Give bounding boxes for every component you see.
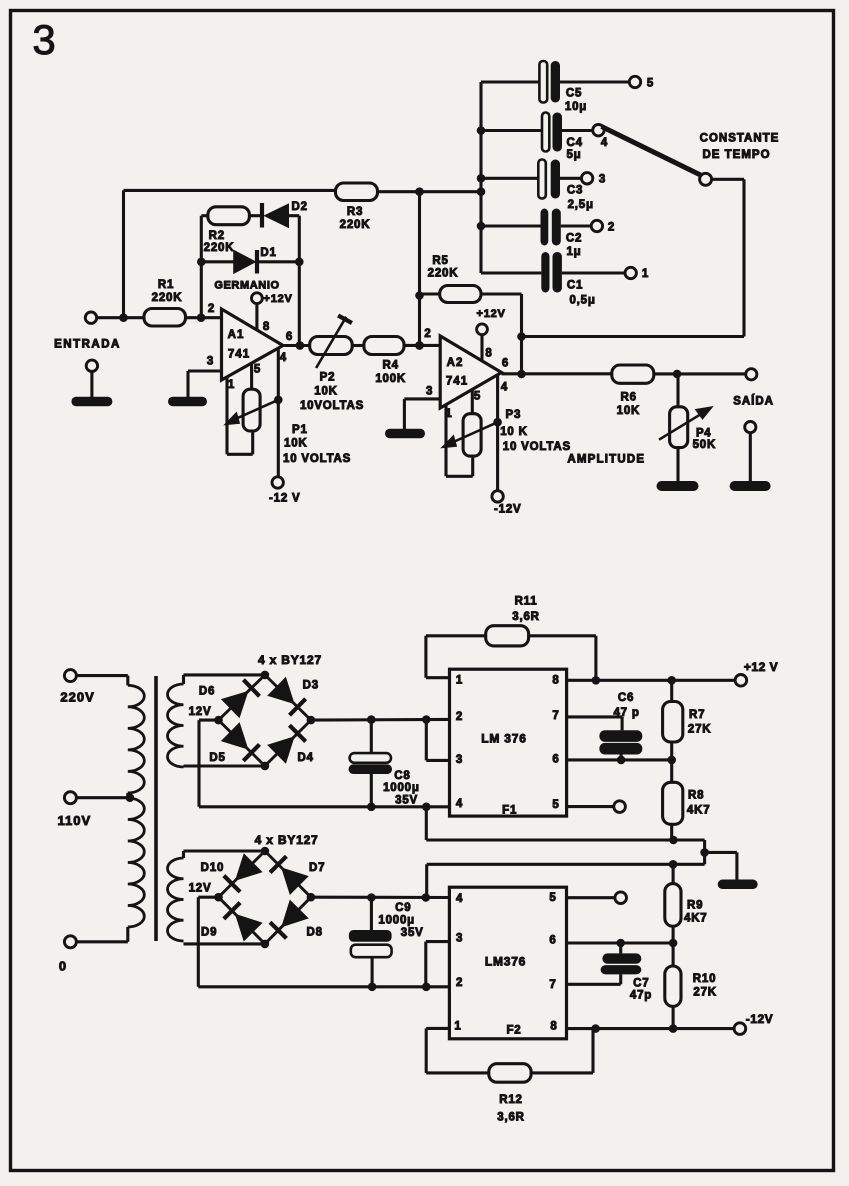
svg-text:4 x BY127: 4 x BY127 [255, 833, 319, 847]
svg-text:C8: C8 [394, 770, 410, 782]
svg-text:D5: D5 [209, 752, 225, 764]
svg-text:C7: C7 [633, 978, 649, 990]
svg-text:3: 3 [426, 386, 433, 398]
svg-text:47p: 47p [630, 990, 652, 1002]
svg-text:R6: R6 [621, 392, 637, 404]
svg-text:3,6R: 3,6R [512, 611, 540, 623]
svg-text:D6: D6 [199, 686, 215, 698]
svg-text:C2: C2 [566, 233, 582, 245]
svg-text:5: 5 [474, 391, 481, 403]
svg-text:1: 1 [454, 1021, 461, 1033]
svg-text:10K: 10K [617, 405, 641, 417]
svg-text:A2: A2 [447, 357, 464, 369]
svg-text:P3: P3 [506, 409, 522, 421]
svg-text:6: 6 [549, 935, 556, 947]
svg-text:R4: R4 [383, 360, 399, 372]
svg-text:4 x BY127: 4 x BY127 [258, 653, 322, 667]
svg-text:R11: R11 [515, 596, 538, 608]
svg-text:6: 6 [286, 331, 293, 343]
svg-text:5: 5 [552, 799, 559, 811]
svg-text:R9: R9 [687, 900, 703, 912]
svg-text:D9: D9 [201, 927, 217, 939]
svg-text:8: 8 [550, 1021, 557, 1033]
svg-text:GERMANIO: GERMANIO [214, 280, 279, 292]
svg-text:4K7: 4K7 [687, 805, 711, 817]
svg-text:P4: P4 [696, 428, 711, 440]
svg-text:R8: R8 [688, 790, 704, 802]
svg-text:8: 8 [552, 675, 559, 687]
svg-text:220K: 220K [428, 268, 459, 280]
svg-text:C3: C3 [567, 185, 583, 197]
svg-text:5μ: 5μ [566, 149, 581, 161]
svg-text:R10: R10 [693, 973, 717, 985]
svg-text:+12V: +12V [264, 293, 293, 305]
svg-text:SAÍDA: SAÍDA [733, 395, 774, 408]
svg-text:AMPLITUDE: AMPLITUDE [567, 454, 645, 466]
svg-text:100K: 100K [375, 373, 406, 385]
svg-text:0: 0 [59, 959, 67, 974]
svg-text:D7: D7 [309, 862, 325, 874]
svg-text:4: 4 [501, 382, 508, 394]
svg-text:10K: 10K [284, 438, 308, 450]
svg-text:1: 1 [642, 268, 649, 280]
svg-text:110V: 110V [57, 813, 91, 828]
svg-text:3: 3 [599, 174, 606, 186]
svg-text:ENTRADA: ENTRADA [54, 339, 121, 351]
svg-text:35V: 35V [395, 795, 418, 807]
svg-text:3: 3 [207, 356, 214, 368]
svg-text:50K: 50K [693, 439, 717, 451]
svg-text:6: 6 [502, 358, 509, 370]
svg-text:-12 V: -12 V [269, 493, 301, 505]
svg-text:-12V: -12V [494, 504, 522, 516]
svg-text:2,5μ: 2,5μ [568, 199, 594, 211]
svg-text:4: 4 [456, 798, 463, 810]
svg-text:R7: R7 [689, 709, 705, 721]
svg-text:10μ: 10μ [565, 101, 587, 113]
svg-text:0,5μ: 0,5μ [569, 295, 595, 307]
svg-text:10 VOLTAS: 10 VOLTAS [283, 453, 351, 465]
svg-text:5: 5 [254, 364, 261, 376]
svg-text:3: 3 [456, 933, 463, 945]
svg-text:741: 741 [228, 349, 250, 361]
svg-text:1: 1 [445, 408, 452, 420]
svg-text:1: 1 [456, 675, 463, 687]
svg-text:+12 V: +12 V [744, 660, 778, 674]
svg-text:2: 2 [456, 711, 463, 723]
svg-text:P2: P2 [320, 372, 336, 384]
svg-text:8: 8 [263, 321, 270, 333]
svg-text:R5: R5 [432, 255, 448, 267]
svg-text:P1: P1 [292, 424, 308, 436]
svg-text:4: 4 [601, 137, 608, 149]
svg-text:C4: C4 [567, 137, 583, 149]
svg-text:220K: 220K [152, 292, 183, 304]
svg-text:DE TEMPO: DE TEMPO [702, 149, 770, 161]
svg-text:R1: R1 [158, 279, 174, 291]
svg-text:12V: 12V [189, 706, 212, 718]
svg-text:3: 3 [456, 754, 463, 766]
svg-text:2: 2 [608, 222, 615, 234]
svg-text:220V: 220V [60, 690, 94, 705]
svg-text:741: 741 [446, 376, 468, 388]
svg-text:47 p: 47 p [613, 707, 639, 719]
svg-text:1000μ: 1000μ [378, 915, 415, 927]
svg-text:7: 7 [549, 979, 556, 991]
svg-text:5: 5 [549, 892, 556, 904]
svg-text:-12V: -12V [746, 1012, 773, 1026]
svg-text:35V: 35V [401, 927, 424, 939]
svg-text:220K: 220K [340, 219, 371, 231]
svg-text:3: 3 [32, 16, 55, 63]
svg-text:C1: C1 [567, 280, 583, 292]
svg-text:1000μ: 1000μ [383, 782, 420, 794]
svg-text:1: 1 [228, 379, 235, 391]
svg-text:D4: D4 [297, 752, 313, 764]
svg-text:C5: C5 [566, 88, 582, 100]
svg-text:D3: D3 [303, 680, 319, 692]
svg-text:2: 2 [424, 328, 431, 340]
svg-text:D8: D8 [307, 927, 323, 939]
svg-text:27K: 27K [688, 724, 712, 736]
svg-text:4K7: 4K7 [684, 913, 708, 925]
svg-text:R3: R3 [347, 206, 363, 218]
svg-text:F1: F1 [502, 805, 517, 817]
svg-text:R12: R12 [499, 1094, 523, 1106]
svg-text:10VOLTAS: 10VOLTAS [300, 400, 364, 412]
svg-text:A1: A1 [228, 329, 245, 341]
svg-text:F2: F2 [506, 1025, 521, 1037]
svg-text:1μ: 1μ [566, 246, 581, 258]
svg-text:10K: 10K [314, 386, 338, 398]
svg-text:4: 4 [280, 352, 287, 364]
svg-text:220K: 220K [204, 242, 235, 254]
svg-text:10 VOLTAS: 10 VOLTAS [503, 441, 571, 453]
svg-text:D2: D2 [292, 201, 308, 213]
svg-text:D1: D1 [260, 247, 276, 259]
svg-text:27K: 27K [693, 987, 717, 999]
svg-text:C9: C9 [395, 902, 411, 914]
svg-text:2: 2 [208, 303, 215, 315]
svg-text:C6: C6 [618, 692, 634, 704]
svg-text:CONSTANTE: CONSTANTE [700, 133, 780, 145]
svg-text:3,6R: 3,6R [497, 1112, 525, 1124]
svg-text:LM 376: LM 376 [481, 732, 526, 746]
svg-text:R2: R2 [209, 230, 225, 242]
svg-text:7: 7 [552, 710, 559, 722]
svg-text:2: 2 [456, 977, 463, 989]
svg-text:8: 8 [485, 348, 492, 360]
svg-text:+12V: +12V [477, 308, 506, 320]
svg-text:10 K: 10 K [500, 426, 528, 438]
svg-text:D10: D10 [201, 862, 225, 874]
svg-text:6: 6 [552, 754, 559, 766]
svg-text:4: 4 [456, 893, 463, 905]
svg-text:5: 5 [647, 78, 654, 90]
svg-text:12V: 12V [189, 883, 212, 895]
svg-text:LM376: LM376 [485, 955, 526, 969]
